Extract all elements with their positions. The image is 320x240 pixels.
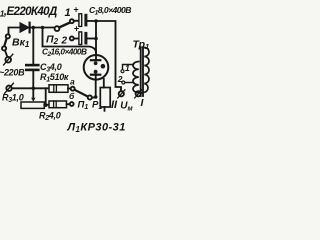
label ~220V (0, 68, 25, 78)
svg-text:R24,0: R24,0 (39, 111, 61, 123)
lamp L1 envelope (84, 55, 109, 80)
svg-text:2: 2 (61, 36, 68, 47)
wire vertical R1-R2 tie (45, 88, 47, 105)
lamp top electrode (91, 60, 100, 65)
switch P2 pole circle (55, 26, 60, 31)
wire R2 from tie node (44, 104, 49, 106)
diode D1 (20, 23, 56, 33)
junction dot C1 (94, 19, 98, 23)
label Bk1 (12, 37, 30, 50)
svg-text:+: + (73, 4, 79, 14)
wire C1 to common node (87, 20, 96, 22)
wire mains top from switch to diode (9, 28, 21, 35)
terminal Um right circle with slash (135, 90, 142, 98)
svg-text:Д1,Е220К40Д: Д1,Е220К40Д (0, 6, 57, 19)
svg-text:Л1КР30-31: Л1КР30-31 (67, 122, 126, 135)
node dot at C3 branch (32, 26, 36, 30)
wire rectifier node down and across (43, 28, 97, 54)
svg-text:1: 1 (125, 63, 130, 73)
label tap 1 (125, 63, 130, 73)
rheostat R3 wiper arrow (31, 88, 35, 102)
svg-text:R1510к: R1510к (40, 72, 69, 84)
resistor R1 body (49, 85, 68, 93)
svg-text:~220В: ~220В (0, 68, 25, 78)
junction dot lower node (32, 87, 36, 91)
terminal Um left circle with slash (118, 90, 125, 98)
junction dot under lamp (94, 95, 98, 99)
label C3 value (40, 62, 62, 74)
lamp bottom electrode (91, 70, 100, 97)
mains terminal circle with slash (4, 54, 13, 65)
label winding II (111, 99, 118, 111)
capacitor C2 plates (79, 32, 88, 45)
svg-text:б: б (69, 91, 75, 101)
contact 2 circle (70, 36, 74, 40)
transformer left winding (133, 62, 139, 93)
label Um (120, 101, 133, 113)
junction dot R2-R3 (44, 103, 48, 107)
label winding I (141, 97, 145, 109)
label relay P1 (92, 100, 102, 112)
label R3 value (2, 93, 24, 105)
switch Bk1 upper contact circle (6, 34, 10, 38)
node dot at rectifier output branch (41, 26, 45, 30)
capacitor C3 (26, 65, 38, 70)
switch Bk1 lever (4, 38, 6, 46)
resistor R3 body (21, 102, 44, 108)
wire relay top to lamp stem (103, 79, 105, 88)
label a (70, 77, 75, 87)
label C1 value (89, 5, 131, 16)
plus sign top capacitor (73, 4, 79, 14)
label P1 switch (78, 100, 89, 112)
plus sign bottom capacitor (74, 24, 80, 34)
svg-text:2: 2 (117, 74, 123, 84)
label R2 value (39, 111, 61, 123)
wire node across to R1 left (33, 87, 49, 89)
lamp gas dot (101, 64, 106, 69)
label Tr1 (133, 39, 150, 52)
label R1 value (40, 72, 69, 84)
svg-text:а: а (70, 77, 75, 87)
wire node to lower terminal (12, 87, 31, 89)
label C2 value (42, 47, 87, 58)
wire switch to mains terminal (5, 50, 7, 56)
tap 1 wire and circle (121, 65, 134, 73)
relay R1 coil box (100, 88, 110, 108)
tap 2 wire and circle (122, 81, 134, 84)
label b (69, 91, 75, 101)
wire relay bottom stub (104, 107, 106, 111)
transformer core lines (141, 48, 143, 97)
wire C3 branch down (32, 28, 34, 64)
label P2 switch (46, 34, 59, 47)
wire C1 node to right vertical (96, 21, 121, 91)
label lamp type bottom (67, 122, 126, 135)
junction dot C2 (94, 37, 98, 41)
wire pole to lamp stem (92, 96, 96, 99)
lower terminal circle with slash (5, 83, 14, 93)
resistor R2 body (49, 101, 67, 108)
wire contact1 to C1 (74, 20, 79, 22)
transformer right winding (140, 48, 149, 94)
wire contact2 to C2 (74, 38, 79, 40)
switch Bk1 lower contact circle (2, 46, 6, 50)
switch P2 lever (59, 23, 70, 28)
switch P1 pole circle (88, 95, 92, 99)
svg-text:II: II (111, 99, 118, 111)
label D1 type top-left (0, 6, 57, 19)
wire R2 to contact b (67, 103, 70, 105)
label contact 1 (65, 7, 71, 19)
label tap 2 (117, 74, 123, 84)
label contact 2 (61, 36, 68, 47)
svg-text:1: 1 (65, 7, 71, 19)
capacitor C1 plates (79, 14, 88, 27)
wire C3 to lower node (32, 71, 34, 88)
wire capacitor common vertical (95, 21, 97, 59)
contact a circle (71, 87, 75, 91)
wire C2 to common node (87, 38, 96, 40)
contact 1 circle (70, 19, 74, 23)
switch P1 lever (75, 90, 88, 97)
wire R1 to contact a (68, 88, 71, 90)
contact b circle (70, 102, 74, 106)
